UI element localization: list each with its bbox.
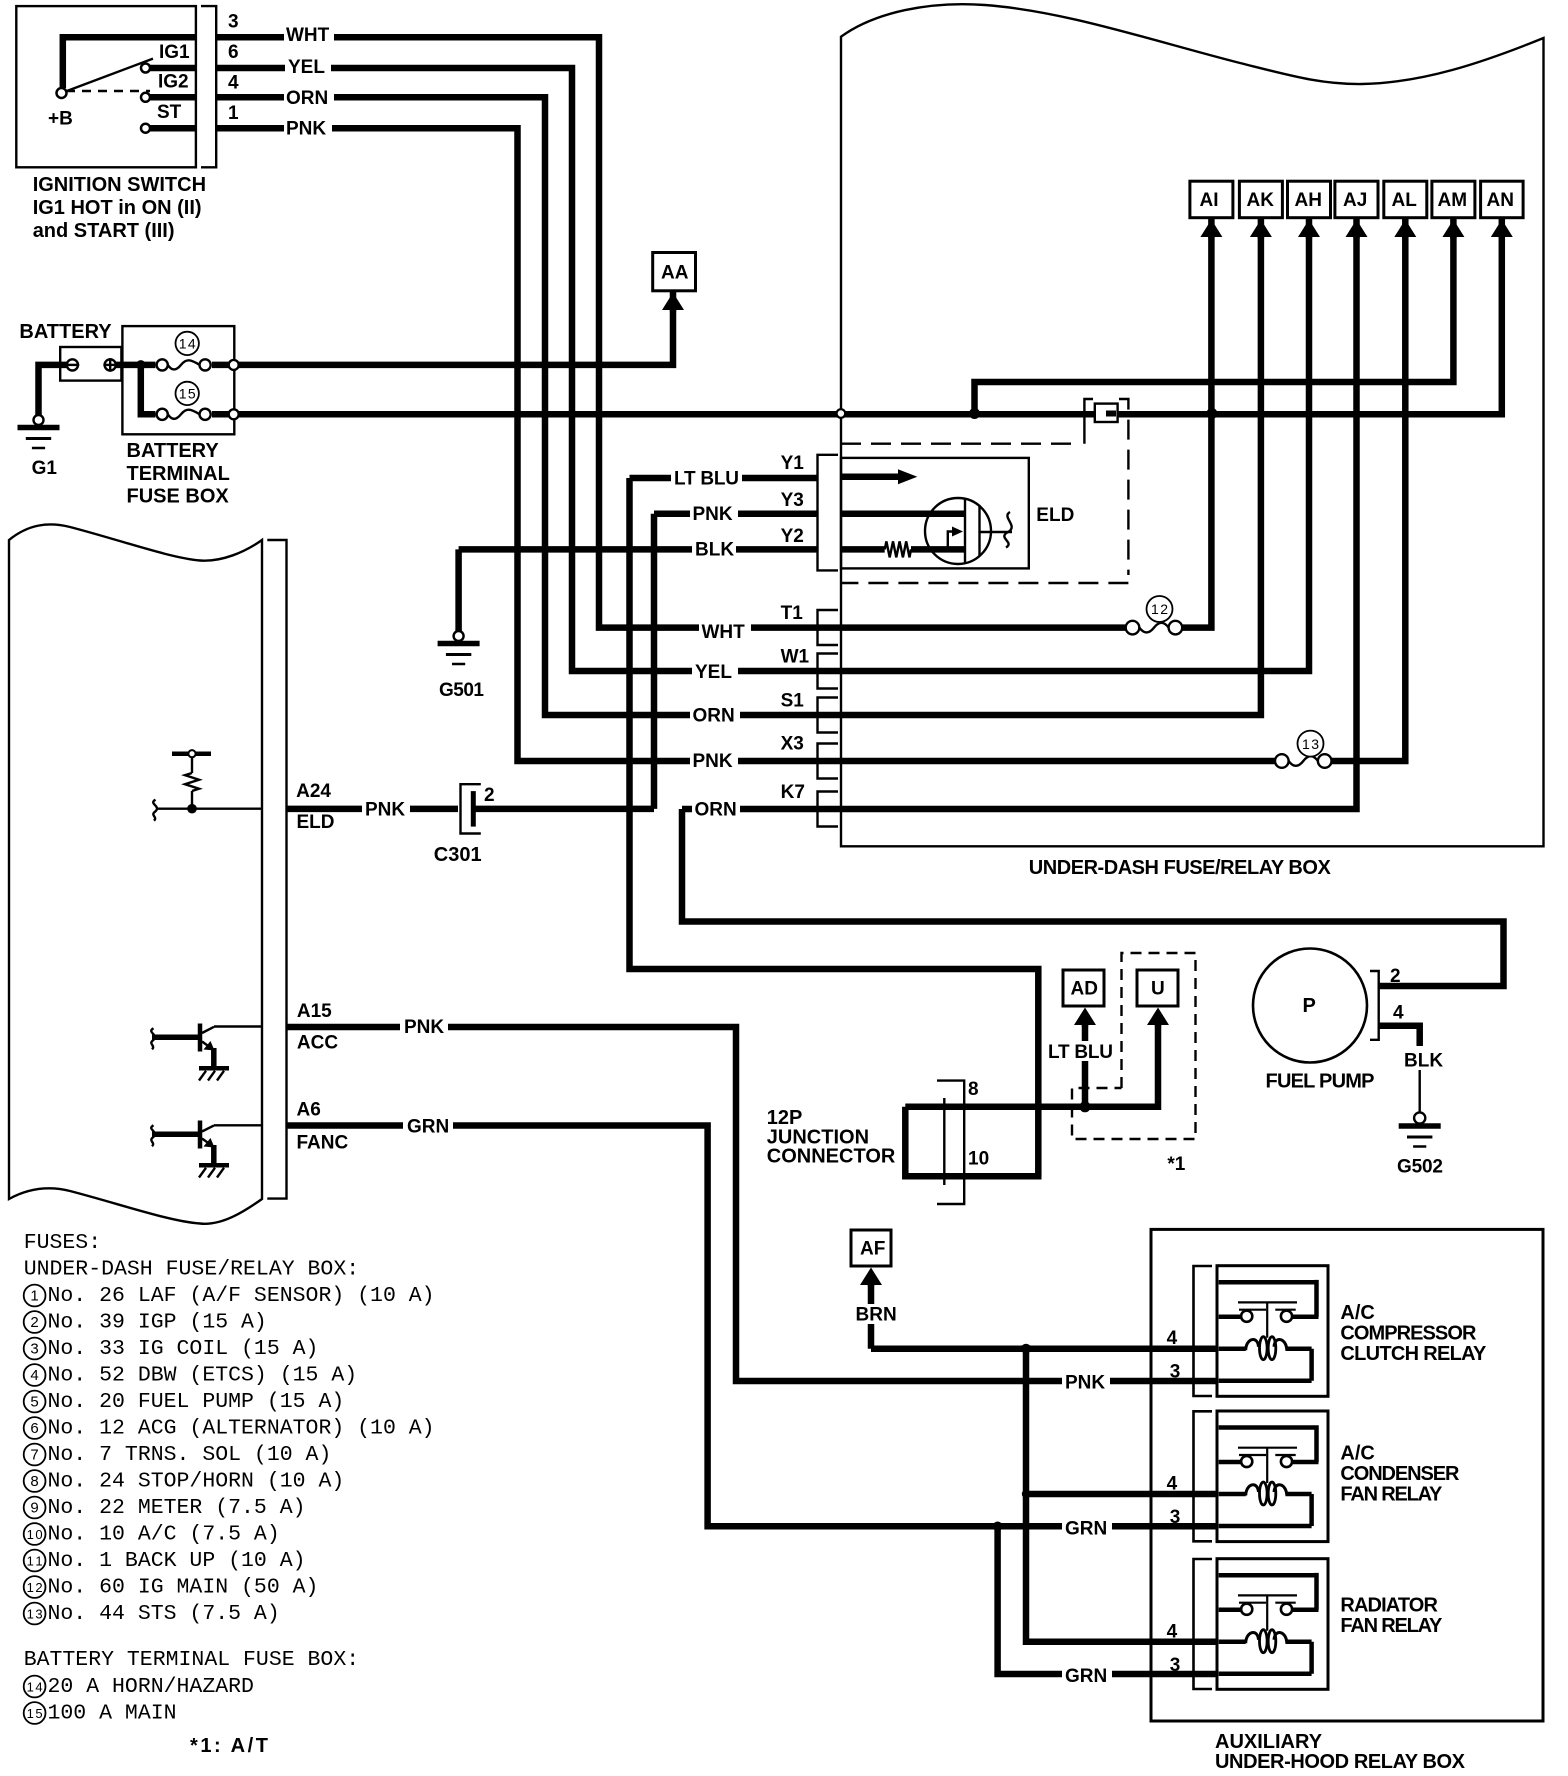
svg-text:A6: A6 [297,1100,321,1121]
svg-text:GRN: GRN [1065,1519,1107,1540]
svg-text:IG2: IG2 [158,72,189,93]
svg-text:AN: AN [1487,190,1514,211]
svg-text:4: 4 [1167,1622,1178,1643]
svg-text:W1: W1 [781,647,810,668]
svg-text:1: 1 [228,103,239,124]
svg-text:Y1: Y1 [781,453,805,474]
svg-text:8: 8 [968,1079,979,1100]
svg-text:6: 6 [228,42,239,63]
svg-text:PNK: PNK [693,504,733,525]
svg-text:13: 13 [1302,736,1319,752]
svg-text:5: 5 [30,1394,38,1411]
svg-text:15: 15 [27,1706,43,1721]
svg-text:No. 22 METER (7.5 A): No. 22 METER (7.5 A) [48,1496,306,1520]
svg-text:1: 1 [30,1288,38,1305]
svg-text:IG1 HOT in ON (II): IG1 HOT in ON (II) [33,197,202,219]
svg-text:P: P [1303,995,1316,1017]
svg-text:AD: AD [1071,979,1098,1000]
svg-text:AI: AI [1200,190,1219,211]
svg-text:and START (III): and START (III) [33,220,175,242]
svg-text:No. 52 DBW (ETCS) (15 A): No. 52 DBW (ETCS) (15 A) [48,1364,358,1388]
svg-text:AL: AL [1392,190,1418,211]
svg-text:No. 39 IGP (15 A): No. 39 IGP (15 A) [48,1311,267,1335]
svg-text:No. 20 FUEL PUMP (15 A): No. 20 FUEL PUMP (15 A) [48,1390,345,1414]
svg-text:FUSES:: FUSES: [24,1231,101,1255]
svg-text:FUSE BOX: FUSE BOX [127,486,230,508]
svg-text:IGNITION SWITCH: IGNITION SWITCH [33,174,206,196]
svg-text:6: 6 [30,1420,38,1437]
svg-text:AUXILIARY: AUXILIARY [1215,1731,1323,1753]
svg-text:BATTERY: BATTERY [19,321,112,343]
svg-text:BATTERY TERMINAL FUSE BOX:: BATTERY TERMINAL FUSE BOX: [24,1648,359,1672]
svg-text:RADIATOR: RADIATOR [1340,1595,1438,1617]
svg-text:11: 11 [27,1554,43,1569]
svg-text:FAN RELAY: FAN RELAY [1340,1615,1443,1637]
svg-text:No. 24 STOP/HORN (10 A): No. 24 STOP/HORN (10 A) [48,1470,345,1494]
svg-text:LT BLU: LT BLU [1048,1042,1113,1063]
svg-text:PNK: PNK [286,119,326,140]
svg-text:9: 9 [30,1500,38,1517]
svg-text:10: 10 [27,1527,43,1542]
svg-text:BATTERY: BATTERY [127,440,220,462]
svg-text:X3: X3 [781,734,804,755]
svg-text:8: 8 [30,1473,38,1490]
svg-text:No. 7 TRNS. SOL (10 A): No. 7 TRNS. SOL (10 A) [48,1443,332,1467]
svg-text:ORN: ORN [286,88,328,109]
svg-text:AJ: AJ [1343,190,1367,211]
svg-text:BLK: BLK [1404,1051,1443,1072]
svg-text:7: 7 [30,1447,38,1464]
svg-text:AK: AK [1247,190,1275,211]
svg-text:G1: G1 [32,458,58,479]
svg-text:20 A HORN/HAZARD: 20 A HORN/HAZARD [48,1675,254,1699]
svg-text:No. 10 A/C (7.5 A): No. 10 A/C (7.5 A) [48,1523,280,1547]
svg-text:3: 3 [1170,1655,1181,1676]
svg-text:K7: K7 [781,782,805,803]
svg-text:4: 4 [30,1367,38,1384]
svg-text:No. 26 LAF (A/F SENSOR) (10 A): No. 26 LAF (A/F SENSOR) (10 A) [48,1284,435,1308]
svg-text:AM: AM [1438,190,1468,211]
svg-text:U: U [1151,979,1165,1000]
svg-text:3: 3 [1170,1507,1181,1528]
svg-text:12: 12 [27,1580,43,1595]
svg-text:14: 14 [179,336,196,352]
svg-text:TERMINAL: TERMINAL [127,463,230,485]
svg-text:PNK: PNK [1065,1373,1105,1394]
svg-text:2: 2 [30,1314,38,1331]
svg-text:+B: +B [48,109,73,130]
svg-text:Y2: Y2 [781,526,804,547]
svg-text:ORN: ORN [693,706,735,727]
svg-text:WHT: WHT [286,25,330,46]
svg-text:WHT: WHT [702,622,746,643]
svg-text:A24: A24 [296,781,331,802]
svg-text:C301: C301 [434,844,482,866]
svg-text:CLUTCH RELAY: CLUTCH RELAY [1340,1343,1487,1365]
svg-text:ELD: ELD [297,812,335,833]
svg-text:FANC: FANC [297,1133,349,1154]
svg-text:A/C: A/C [1340,1443,1374,1465]
svg-text:PNK: PNK [404,1017,444,1038]
svg-text:100 A MAIN: 100 A MAIN [48,1702,177,1726]
svg-text:ELD: ELD [1036,505,1074,526]
svg-text:UNDER-DASH FUSE/RELAY BOX: UNDER-DASH FUSE/RELAY BOX [1029,857,1332,879]
svg-text:BLK: BLK [695,540,734,561]
svg-text:ACC: ACC [297,1033,338,1054]
svg-text:G501: G501 [439,680,484,701]
svg-text:BRN: BRN [856,1305,897,1326]
svg-text:13: 13 [27,1607,43,1622]
svg-text:GRN: GRN [1065,1666,1107,1687]
svg-text:2: 2 [1390,966,1401,987]
svg-text:A15: A15 [297,1001,332,1022]
svg-text:No. 33 IG COIL (15 A): No. 33 IG COIL (15 A) [48,1337,319,1361]
svg-text:CONDENSER: CONDENSER [1340,1463,1460,1485]
svg-text:ST: ST [157,102,182,123]
svg-text:3: 3 [1170,1362,1181,1383]
svg-text:No. 44 STS (7.5 A): No. 44 STS (7.5 A) [48,1602,280,1626]
svg-text:4: 4 [1393,1003,1404,1024]
svg-text:YEL: YEL [695,662,732,683]
svg-text:4: 4 [228,73,239,94]
svg-text:3: 3 [30,1341,38,1358]
svg-text:YEL: YEL [288,57,325,78]
svg-text:CONNECTOR: CONNECTOR [767,1146,896,1168]
svg-text:UNDER-DASH FUSE/RELAY BOX:: UNDER-DASH FUSE/RELAY BOX: [24,1258,359,1282]
svg-text:PNK: PNK [365,800,405,821]
svg-text:3: 3 [228,12,239,33]
svg-text:ORN: ORN [695,800,737,821]
svg-text:No. 1 BACK UP (10 A): No. 1 BACK UP (10 A) [48,1549,306,1573]
svg-text:FAN RELAY: FAN RELAY [1340,1484,1443,1506]
svg-text:GRN: GRN [407,1117,449,1138]
svg-text:LT BLU: LT BLU [674,469,739,490]
svg-text:12: 12 [1151,601,1168,617]
svg-text:No. 60 IG MAIN (50 A): No. 60 IG MAIN (50 A) [48,1576,319,1600]
svg-text:PNK: PNK [693,751,733,772]
svg-text:14: 14 [27,1680,43,1695]
svg-text:AF: AF [860,1239,885,1260]
svg-text:S1: S1 [781,691,805,712]
svg-text:2: 2 [484,785,495,806]
svg-text:No. 12 ACG (ALTERNATOR) (10 A): No. 12 ACG (ALTERNATOR) (10 A) [48,1417,435,1441]
svg-text:Y3: Y3 [781,490,804,511]
svg-text:UNDER-HOOD RELAY BOX: UNDER-HOOD RELAY BOX [1215,1751,1466,1773]
svg-text:10: 10 [968,1149,989,1170]
svg-text:*1: *1 [1167,1154,1185,1175]
svg-text:G502: G502 [1397,1157,1443,1178]
svg-text:IG1: IG1 [159,42,190,63]
svg-text:FUEL PUMP: FUEL PUMP [1266,1071,1375,1093]
svg-text:15: 15 [179,386,196,402]
svg-text:COMPRESSOR: COMPRESSOR [1340,1323,1477,1345]
svg-text:A/C: A/C [1340,1302,1374,1324]
svg-text:4: 4 [1167,1474,1178,1495]
svg-text:AA: AA [661,263,689,284]
svg-text:4: 4 [1167,1328,1178,1349]
svg-text:AH: AH [1295,190,1322,211]
svg-text:T1: T1 [781,603,804,624]
